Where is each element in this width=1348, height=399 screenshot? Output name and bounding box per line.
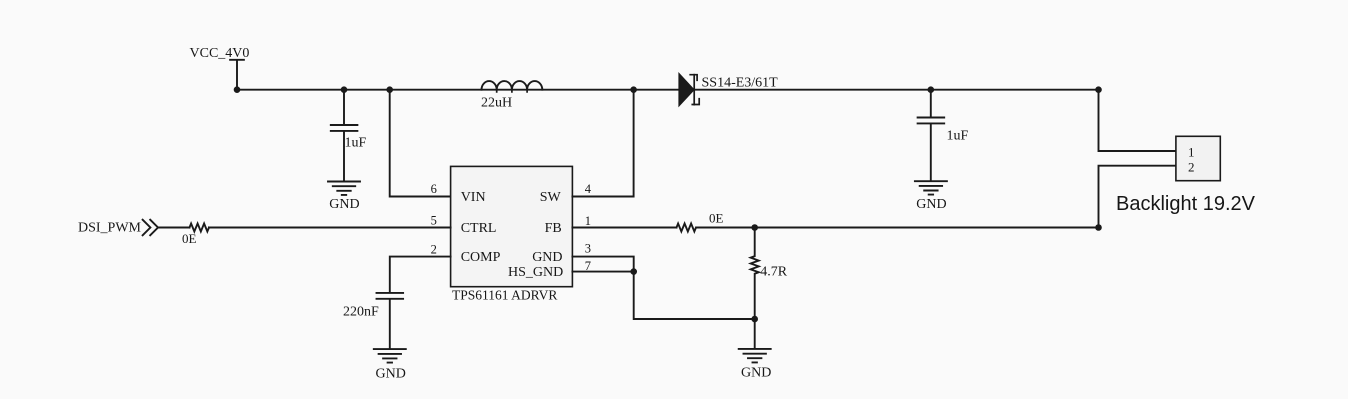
- svg-text:GND: GND: [532, 250, 562, 265]
- svg-text:0E: 0E: [182, 231, 197, 246]
- connector J1: [1116, 136, 1256, 215]
- svg-text:HS_GND: HS_GND: [508, 265, 563, 280]
- ground (C2): [915, 181, 947, 212]
- diode D1 SS14-E3/61T: [679, 74, 778, 106]
- svg-text:COMP: COMP: [461, 250, 501, 265]
- svg-text:3: 3: [585, 242, 591, 256]
- svg-text:TPS61161 ADRVR: TPS61161 ADRVR: [452, 288, 557, 303]
- resistor R1 0E: [182, 224, 209, 247]
- wire FB vertical to connector pin 2: [1099, 166, 1176, 228]
- capacitor C2 1uF: [918, 90, 969, 181]
- svg-text:GND: GND: [329, 197, 359, 212]
- power symbol VCC_4V0: [190, 46, 250, 90]
- capacitor C1 1uF: [331, 90, 367, 181]
- node junction C2 top: [928, 86, 935, 93]
- resistor R3 4.7R: [751, 228, 788, 320]
- svg-text:1: 1: [1188, 145, 1195, 160]
- wire FB net continued: [697, 227, 1099, 229]
- inductor L1 22uH: [481, 81, 542, 111]
- wire GND pin3: [572, 257, 633, 272]
- node junction pin3/pin7: [630, 268, 637, 275]
- svg-text:GND: GND: [376, 366, 406, 381]
- svg-text:DSI_PWM: DSI_PWM: [78, 221, 142, 236]
- svg-text:Backlight 19.2V: Backlight 19.2V: [1116, 193, 1256, 215]
- wire FB net (pin1 to right): [572, 227, 676, 229]
- svg-text:1uF: 1uF: [947, 129, 969, 144]
- port DSI_PWM: [78, 220, 158, 236]
- svg-text:6: 6: [431, 182, 437, 196]
- svg-text:22uH: 22uH: [481, 96, 512, 111]
- wire R3 bottom to ground: [754, 319, 756, 348]
- wire VIN drop: [390, 90, 451, 197]
- svg-text:SS14-E3/61T: SS14-E3/61T: [702, 76, 779, 91]
- capacitor C3 220nF: [343, 293, 403, 348]
- svg-text:220nF: 220nF: [343, 305, 379, 320]
- svg-text:FB: FB: [545, 221, 562, 236]
- wire top rail right (diode cathode to right vertical): [696, 89, 1099, 91]
- ground (C3): [374, 349, 406, 381]
- wire HS_GND pin7: [572, 271, 633, 273]
- svg-text:GND: GND: [916, 197, 946, 212]
- svg-text:1uF: 1uF: [345, 136, 367, 151]
- svg-text:VCC_4V0: VCC_4V0: [190, 46, 250, 61]
- wire COMP net: [390, 257, 451, 292]
- wire top rail left (VCC to diode anode): [237, 89, 679, 91]
- svg-text:4: 4: [585, 182, 592, 196]
- svg-text:4.7R: 4.7R: [760, 264, 788, 279]
- wire CTRL net left segment: [158, 227, 190, 229]
- svg-text:SW: SW: [540, 190, 562, 205]
- svg-text:VIN: VIN: [461, 190, 486, 205]
- svg-text:CTRL: CTRL: [461, 221, 497, 236]
- resistor R2 0E: [677, 211, 724, 232]
- wire SW to top rail: [572, 90, 633, 197]
- node junction SW: [630, 86, 637, 93]
- node junction C1 top: [341, 86, 348, 93]
- wire VOUT vertical to connector pin 1: [1099, 90, 1176, 151]
- node junction VOUT: [1095, 86, 1102, 93]
- svg-text:2: 2: [431, 243, 437, 257]
- node junction VIN drop: [386, 86, 393, 93]
- ground (C1): [328, 182, 360, 213]
- wire CTRL net right segment: [209, 227, 451, 229]
- svg-text:GND: GND: [741, 366, 771, 381]
- IC U1 TPS61161 ADRVR body: [451, 166, 573, 302]
- svg-text:2: 2: [1188, 160, 1195, 175]
- svg-text:0E: 0E: [709, 211, 724, 226]
- node junction FB-right: [1095, 224, 1102, 231]
- node junction FB/R3: [751, 224, 758, 231]
- svg-text:5: 5: [431, 214, 437, 228]
- wire pins 3/7 to ground net: [634, 272, 755, 319]
- ground (R3 / pins): [739, 349, 772, 381]
- node junction R3 bottom: [751, 316, 758, 323]
- svg-text:1: 1: [585, 214, 591, 228]
- node junction VCC: [234, 86, 241, 93]
